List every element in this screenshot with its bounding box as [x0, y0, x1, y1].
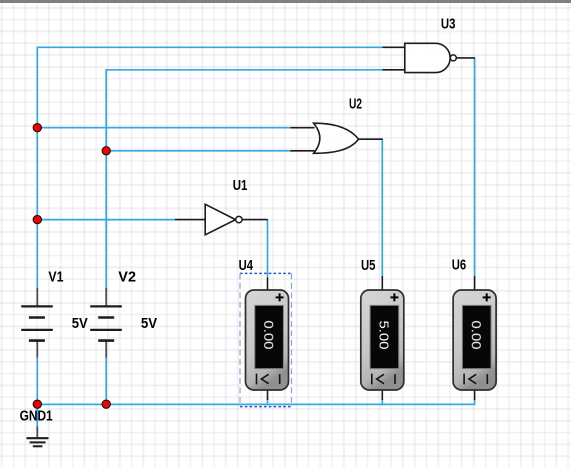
svg-text:U1: U1	[233, 178, 248, 194]
wire net V1+ to U2 input A	[37, 127, 290, 129]
svg-text:V2: V2	[118, 269, 136, 285]
battery V1 plates	[21, 306, 53, 340]
pin stub U1 output	[242, 219, 268, 221]
wire net V1+ vertical	[36, 47, 38, 289]
wire U4 bottom to rail	[267, 399, 269, 405]
pin stub U2 input B	[290, 150, 314, 152]
battery V1 lead top	[36, 288, 38, 306]
battery V2 plates	[90, 306, 122, 340]
wire V1- to ground rail	[36, 357, 38, 427]
pin stub U3 input B	[382, 69, 405, 71]
pin stub U3 output	[456, 57, 475, 59]
selection box around U4	[240, 273, 292, 406]
voltmeter U6 bottom pin	[474, 389, 476, 400]
battery V2 lead top	[105, 288, 107, 306]
or-gate U2 body	[314, 123, 359, 153]
battery V1 lead bottom	[36, 341, 38, 358]
svg-text:0.00: 0.00	[261, 321, 275, 350]
wire net V1+ to U1 input	[37, 219, 175, 221]
junction dot ground rail V2-	[102, 400, 110, 408]
label U3	[441, 16, 456, 32]
svg-text:U2: U2	[349, 97, 362, 113]
svg-text:0.00: 0.00	[469, 321, 483, 350]
voltmeter U4 body	[246, 290, 289, 390]
wire net V1+ top horizontal to U3 input A	[37, 46, 383, 48]
voltmeter U5 bottom pin	[381, 389, 383, 400]
wire U5 bottom to rail	[381, 399, 383, 405]
junction dot net V1+ / U1	[33, 215, 41, 223]
svg-text:5V: 5V	[72, 316, 88, 332]
label GND1	[20, 409, 53, 425]
label U1	[233, 178, 248, 194]
voltmeter U4 top pin	[267, 278, 269, 292]
ground GND1 bars	[27, 438, 49, 446]
ground GND1 lead	[36, 427, 38, 439]
junction dot net V2+ / U2B	[102, 147, 110, 155]
svg-text:U3: U3	[441, 16, 456, 32]
wire U3 output to U6	[474, 58, 476, 276]
svg-text:GND1: GND1	[20, 409, 53, 425]
label value 5V of V1	[72, 316, 88, 332]
pin stub U2 output	[359, 138, 383, 140]
pin stub U3 input A	[382, 46, 405, 48]
battery V2 lead bottom	[105, 341, 107, 358]
wire ground rail horizontal	[37, 403, 474, 405]
label U5	[361, 258, 376, 274]
inverter U1 body	[205, 204, 242, 235]
svg-text:U5: U5	[361, 258, 376, 274]
voltmeter U5 top pin	[381, 276, 383, 291]
junction dot net V1+ / U2A	[33, 124, 41, 132]
voltmeter U6 body	[453, 290, 496, 390]
wire U1 output to U4	[267, 220, 269, 278]
label U4	[239, 258, 253, 274]
wire V2- to ground rail	[105, 357, 107, 405]
svg-text:U6: U6	[452, 258, 466, 274]
wire U6 bottom to rail	[474, 399, 476, 405]
label U6	[452, 258, 466, 274]
pin stub U2 input A	[290, 127, 314, 129]
wire net V2+ top horizontal to U3 input B	[105, 69, 382, 71]
wire net V2+ to U2 input B	[106, 150, 290, 152]
label U2	[349, 97, 362, 113]
svg-text:5V: 5V	[141, 316, 158, 332]
label value 5V of V2	[141, 316, 158, 332]
pin stub U1 input	[175, 219, 206, 221]
wire net V2+ vertical	[105, 70, 107, 289]
svg-text:U4: U4	[239, 258, 253, 274]
svg-text:V1: V1	[48, 269, 63, 285]
voltmeter U5 body	[361, 290, 404, 390]
label V2	[118, 269, 136, 285]
svg-text:5.00: 5.00	[377, 321, 391, 350]
wire U2 output to U5	[381, 139, 383, 276]
junction dot ground rail GND1	[33, 400, 41, 408]
voltmeter U4 bottom pin	[267, 389, 269, 400]
label V1	[48, 269, 63, 285]
nand-gate U3 body	[405, 43, 457, 72]
voltmeter U6 top pin	[474, 276, 476, 291]
